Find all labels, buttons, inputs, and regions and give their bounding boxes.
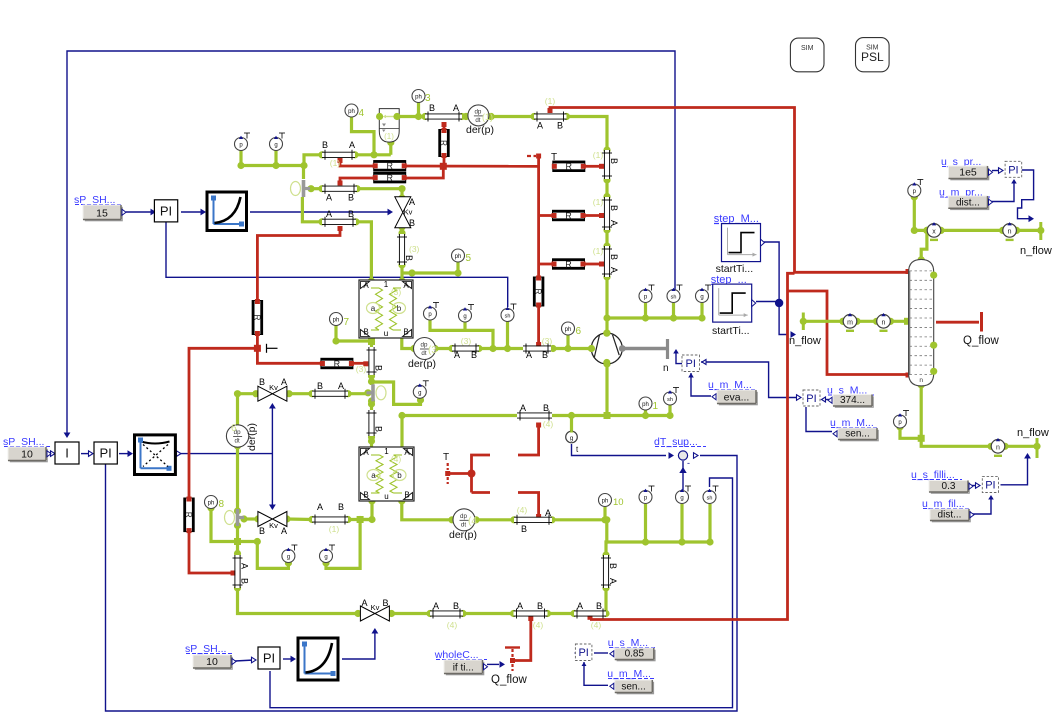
resistor Rv4 vertical [184,498,194,532]
svg-text:B: B [521,524,527,534]
svg-text:0.3: 0.3 [942,481,956,492]
svg-text:sh: sh [505,314,511,320]
svg-text:A: A [577,601,583,611]
sensor p6 [649,485,655,487]
wire step1 + step2 to m_flow port [764,242,788,335]
sensor ph5 [452,249,465,262]
svg-text:B: B [453,601,459,611]
sensor ph6 [562,322,575,335]
svg-text:PI: PI [100,446,112,461]
pipe p3 [322,220,356,224]
svg-text:5: 5 [466,253,472,264]
compressor pump [591,333,622,364]
wire PI5 output to n_flow port bottom [1001,458,1028,485]
wire sensor taps bottom left [238,542,289,569]
svg-text:(3): (3) [542,336,553,346]
valve v4 A Kv B [360,606,375,621]
pipe p2 [322,187,357,191]
sensor ph3 [412,90,425,103]
svg-text:-: - [687,458,690,468]
svg-text:10: 10 [613,497,624,508]
svg-text:b: b [397,471,402,480]
svg-text:B: B [317,381,323,391]
svg-text:A: A [326,209,332,219]
svg-text:a: a [371,471,376,480]
svg-text:B: B [363,491,368,500]
pipe p4v vertical below valve v1 [400,234,404,265]
wire heat main loop condenser [550,108,795,273]
wire crossed box to valves v2 v3 [178,453,272,455]
svg-text:ph: ph [602,499,609,505]
svg-text:R: R [566,162,573,172]
controller PI2L [94,442,117,464]
wire PI3 to curve2 [283,658,294,660]
svg-text:A: A [609,267,619,273]
svg-text:dt: dt [235,438,240,445]
svg-text:1e5: 1e5 [959,167,977,179]
svg-text:Kv: Kv [404,208,413,217]
svg-text:(1): (1) [593,246,604,256]
svg-text:(3): (3) [391,287,402,297]
input box dist2 [932,511,971,523]
svg-text:B: B [543,403,549,413]
flow sensor n3 [987,443,994,450]
svg-text:A: A [517,601,523,611]
svg-text:sh: sh [707,496,713,502]
pipe p6b [312,517,348,521]
pipe p8 [452,346,479,350]
wire dT_sup output to PI2L measure (bottom loop) [106,456,738,712]
resistor R2h [553,210,585,220]
svg-text:(3): (3) [409,244,420,254]
svg-text:6: 6 [231,423,237,434]
svg-text:B: B [403,328,408,337]
wire wholeC to Q_flow port [487,663,499,665]
input box 10a [10,449,48,463]
svg-text:B: B [409,218,415,228]
svg-text:g: g [463,314,466,320]
input box 374 [835,396,874,408]
sensor g3 [423,380,429,382]
sensor ph9 [639,397,652,410]
svg-text:ph: ph [565,327,572,333]
pipe p5 vertical [369,347,373,375]
svg-text:Kv: Kv [269,521,278,530]
svg-text:A: A [317,502,323,512]
svg-text:A: A [409,197,415,207]
svg-text:dp: dp [474,108,481,115]
svg-text:sen...: sen... [621,682,645,693]
wire suction line y415 [400,416,403,451]
svg-text:B: B [596,601,602,611]
svg-text:1: 1 [384,280,389,289]
svg-text:A: A [361,598,367,608]
svg-text:(3): (3) [356,364,367,374]
svg-text:ph: ph [348,109,355,115]
column accumulator [909,259,934,386]
svg-text:374...: 374... [840,395,865,406]
svg-text:ph: ph [642,402,649,408]
svg-text:B: B [338,502,344,512]
pipe pb5 [514,518,552,522]
svg-text:A: A [545,508,551,518]
block limiter curve1 [207,192,247,231]
svg-text:A: A [338,381,344,391]
sensor der4 dp/dt [453,509,475,531]
sensor der1 dp/dt [462,113,469,120]
controller PI6 [575,644,592,661]
pipe p13v vertical [605,150,609,179]
svg-text:SIM: SIM [801,45,814,52]
svg-text:n: n [919,377,923,384]
resistor R5h [321,358,353,368]
wire eva to PI2 measure [691,373,711,396]
svg-text:Kv: Kv [269,383,278,392]
svg-text:R: R [252,315,261,321]
controller PI1 [154,200,177,222]
svg-text:A: A [363,448,369,457]
input box if ti [446,662,485,676]
wire compressor suction rail sensors [607,316,702,319]
sensor ph4 [345,104,358,117]
T port heat 2 [266,344,268,353]
pipe pb1 [430,611,463,615]
svg-text:A: A [608,578,618,584]
sensor theta6 [685,485,691,487]
wire dist to PI4 measure [990,181,1014,202]
svg-text:R: R [565,211,572,221]
sensor p4 [917,179,923,181]
svg-text:dist...: dist... [956,197,980,208]
svg-text:n: n [1008,228,1012,235]
sensor ph8 [205,496,218,509]
Q_flow port column [936,321,979,324]
wire evaporator inlet top-left [241,150,304,166]
svg-text:eva...: eva... [724,392,750,404]
pipe pT1 [425,114,462,118]
svg-text:8: 8 [219,499,225,510]
svg-text:(4): (4) [517,505,528,515]
sensor p2 [433,302,439,304]
svg-text:A: A [349,140,355,150]
pipe pb3 [574,611,606,615]
svg-text:n_flow: n_flow [1017,427,1049,439]
wire u_s_filling to PI5 [970,485,978,487]
pipe pb2 [514,611,548,615]
svg-text:R: R [386,173,393,183]
sensor sh5 [673,387,679,389]
svg-text:der(p): der(p) [466,124,494,136]
sensor sh3 [713,485,719,487]
svg-text:B: B [429,103,435,113]
wire I to PI2L [81,453,90,455]
resistor R3h [553,259,585,269]
heat exchanger HX2 condenser [359,447,414,501]
wire evap out to pump [336,325,372,341]
svg-text:Q_flow: Q_flow [963,335,999,347]
wire splitter T2 to pipe6 and valve v2 [348,392,366,395]
T port heat 1 [527,155,536,157]
svg-text:A: A [363,281,369,290]
wire dT_sup minus input from theta sensor [682,461,684,490]
svg-text:R: R [534,289,543,295]
svg-text:sh: sh [671,295,677,301]
svg-text:B: B [382,598,388,608]
block crossed box [135,435,176,475]
svg-text:B: B [322,140,328,150]
wire PI4 output staircase to n_flow port [1018,170,1034,219]
svg-text:g: g [324,555,327,561]
svg-text:A: A [453,103,459,113]
svg-text:A: A [520,403,526,413]
sensor der5 dp/dt rotated [226,425,248,447]
heat exchanger HX1 evaporator [359,280,413,338]
sensor p5 [903,410,909,412]
resistor R4h [553,161,585,171]
svg-text:A: A [326,193,332,203]
box SIM [790,38,824,72]
sensor g4 [291,544,297,546]
svg-text:1: 1 [384,447,389,456]
svg-text:A: A [281,526,287,536]
svg-text:if ti...: if ti... [453,663,474,674]
svg-text:(1): (1) [545,96,556,106]
controller PI4 [1005,161,1022,177]
svg-text:ph: ph [455,254,462,260]
wire PI2 to PI3R cascade [701,362,799,398]
pipe p14v vertical [605,197,609,230]
wire evaporator wall net top [340,159,376,166]
svg-text:PI: PI [578,647,588,659]
svg-text:B: B [363,328,368,337]
wire PI2L to crossed box [119,453,130,455]
svg-text:(1): (1) [384,132,394,141]
svg-text:PI: PI [160,204,172,219]
svg-text:a: a [371,304,376,313]
svg-text:R: R [565,259,572,269]
wire setpoint 15 to PI1 [126,211,153,213]
shaft gray [622,347,669,350]
svg-text:(1): (1) [329,524,340,534]
wire condenser wall column [537,158,540,278]
pipe ps1 suction [517,413,552,417]
svg-text:n: n [882,319,886,326]
wire u_s_pr to PI4 [992,170,1001,172]
svg-text:n: n [996,444,1000,451]
svg-text:R: R [334,359,341,369]
wire PI3R bottom to sen box [806,407,832,432]
svg-text:B: B [240,578,250,584]
svg-text:A: A [240,563,250,569]
input box 1e5 [950,168,989,181]
resistor Rv1 vertical [439,130,449,157]
sensor p3 [649,284,655,286]
svg-text:g: g [274,143,277,149]
input box eva [719,392,758,406]
svg-text:PI: PI [263,651,275,666]
valve v3 B Kv A [258,512,273,527]
svg-text:n_flow: n_flow [1020,245,1052,257]
svg-text:B: B [259,526,265,536]
wire setpoint 10b to PI3 [235,660,254,661]
svg-text:B: B [609,205,619,211]
wire valve v3 to HX2 [244,517,258,520]
input box 0.3 [931,482,970,494]
wire PI1 to limiter curve [181,211,203,213]
controller PI5 [982,476,998,492]
svg-text:B: B [404,491,409,500]
splitter T1 [302,180,306,197]
svg-text:B: B [374,365,384,371]
svg-text:der(p): der(p) [246,423,258,451]
sensor ph7 [330,313,343,326]
svg-text:der(p): der(p) [408,358,436,370]
svg-text:dt: dt [461,521,466,528]
sensor theta-mid [705,284,711,286]
pipe p9 [523,346,551,350]
wire bottom liquid line [392,612,431,615]
wholeC heat port to pipe [505,646,520,648]
svg-text:4: 4 [359,108,365,119]
svg-text:10: 10 [206,656,218,668]
svg-text:A: A [433,601,439,611]
svg-text:R: R [184,512,193,518]
svg-text:(1): (1) [593,150,604,160]
svg-text:T: T [443,452,449,463]
svg-text:dt: dt [421,350,426,357]
wire curve to valve v1 [250,211,388,213]
svg-text:ph: ph [333,318,340,324]
svg-text:dp: dp [421,342,428,349]
svg-text:(4: (4 [468,516,477,527]
svg-text:10: 10 [21,449,33,461]
svg-text:A: A [537,121,543,131]
input box dist [950,198,989,210]
controller PI3 [258,647,280,669]
junction red 443 [440,163,447,170]
sensor tau [566,431,578,443]
wire m_flow source line to column [802,313,805,331]
wire ph8 tap [211,508,238,542]
input box sen [840,430,879,442]
input box sen2 [617,682,655,695]
svg-text:(3: (3 [428,345,437,356]
svg-text:(4): (4) [533,620,544,630]
svg-text:Kv: Kv [371,603,380,612]
pipe pb6 vertical [604,555,608,588]
block limiter curve2 [298,638,338,680]
svg-text:(4): (4) [591,620,602,630]
svg-text:sen...: sen... [845,429,869,440]
wire u_s_M 374 to PI3R [823,399,829,401]
svg-text:A: A [403,281,409,290]
wire curve2 to valve v4 [342,631,375,659]
svg-text:B: B [348,193,354,203]
flow sensor n1 [999,227,1006,234]
svg-text:B: B [348,209,354,219]
svg-text:der(p): der(p) [449,529,477,541]
svg-text:15: 15 [96,208,108,220]
svg-text:PI: PI [985,479,995,491]
svg-text:(1): (1) [482,112,493,122]
pipe p7 vertical [369,410,373,436]
block I [55,442,79,464]
svg-text:dist...: dist... [938,510,962,521]
svg-text:g: g [570,435,574,442]
svg-text:n: n [663,363,669,374]
controller PI2 compressor [682,355,700,372]
svg-text:g: g [680,496,683,502]
resistor R stack B [374,172,406,182]
wire sh3 sensor to PI3 measure (bottom loop 2) [270,478,733,708]
svg-text:I: I [65,446,69,461]
svg-text:g: g [418,390,421,396]
svg-text:A: A [281,377,287,387]
pipe pL vertical [235,555,239,588]
wire sh-measure to I: top frame [67,51,675,436]
svg-text:0.85: 0.85 [625,649,645,660]
svg-text:B: B [537,601,543,611]
svg-text:B: B [609,158,619,164]
svg-text:A: A [609,220,619,226]
svg-text:ph: ph [208,501,215,507]
svg-text:B: B [608,563,618,569]
svg-text:b: b [397,304,402,313]
svg-text:(3): (3) [461,336,472,346]
sensor sh2 [511,303,517,305]
wire setpoint 10 to I block [50,453,53,455]
svg-text:sh: sh [667,397,673,403]
wire left heat net [257,227,340,302]
svg-text:PI: PI [686,358,696,370]
splitter T3 [236,509,240,526]
resistor R stack A [374,161,406,171]
splitter T2 [371,384,375,401]
wire HX2 outlet to pipes [402,501,452,520]
flow sensor n2 [873,318,880,325]
input box 10b [195,657,233,670]
wire PI6 to u_s_M box [594,652,608,654]
valve v1 A Kv B vertical [395,197,411,213]
wire column bottom to n_flow2 [920,385,923,438]
input box 0.85 [617,650,656,662]
svg-text:B: B [404,255,414,261]
svg-text:1: 1 [653,401,659,412]
svg-text:B: B [259,377,265,387]
svg-text:PI: PI [1008,164,1018,176]
sum block dT_sup [678,451,687,460]
input box 15 [85,207,123,222]
pipe p1 top [322,153,355,157]
box SIM PSL [856,38,890,72]
svg-text:dp: dp [460,513,467,520]
sensor g2 [468,304,474,306]
svg-text:R: R [386,161,393,171]
valve v2 B Kv A [258,386,273,401]
wire tau sensor to dT_sup [572,444,667,456]
sensor der3 dp/dt [414,338,436,360]
pipe p6 [312,392,348,396]
sensor g1 [279,132,285,134]
wire PI6 bottom to sen box [584,662,608,685]
flow sensor m [839,318,846,325]
svg-text:g: g [700,295,703,301]
sensor p1 [244,132,250,134]
wire speed sensor to PI2 [676,352,682,364]
green junction dots [300,162,307,169]
svg-text:B: B [609,254,619,260]
wire PI1 feedback to sensor sh2 [166,222,508,307]
